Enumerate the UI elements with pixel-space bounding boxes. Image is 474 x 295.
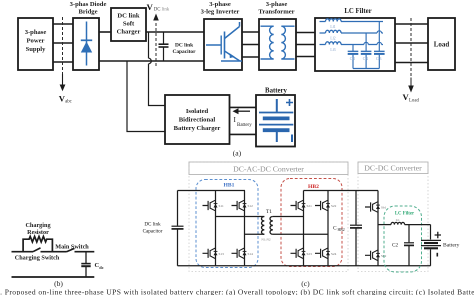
svg-text:Lb: Lb <box>396 218 400 222</box>
svg-text:3-phase: 3-phase <box>266 1 288 8</box>
VDClink measurement dashed line and arrow <box>147 2 170 66</box>
svg-text:S11: S11 <box>219 204 224 208</box>
svg-text:Soft: Soft <box>123 21 135 28</box>
transformer box <box>259 19 296 70</box>
svg-text:Battery: Battery <box>265 88 287 95</box>
C2 capacitor branch <box>392 225 414 266</box>
svg-text:Cf3: Cf3 <box>376 57 382 61</box>
svg-text:S14: S14 <box>248 252 254 256</box>
svg-text:DC link: DC link <box>117 13 140 20</box>
charging resistor label <box>25 222 51 236</box>
main line left segment <box>12 251 34 253</box>
svg-text:LC Filter: LC Filter <box>344 8 371 15</box>
3-phas diode bridge label <box>70 1 107 15</box>
isolated bidirectional battery charger box <box>165 95 230 144</box>
svg-text:Charging Switch: Charging Switch <box>15 255 60 262</box>
IGBT S12 <box>232 200 247 210</box>
IGBT S24 <box>315 248 330 258</box>
svg-text:V: V <box>147 2 154 12</box>
svg-text:3-phase: 3-phase <box>209 1 231 8</box>
svg-text:Lf1: Lf1 <box>330 25 335 29</box>
buck output wire with inductor Lb <box>378 218 431 225</box>
svg-text:T1: T1 <box>266 209 272 215</box>
IGBT S11 <box>203 200 218 210</box>
svg-text:Capacitor: Capacitor <box>172 49 196 55</box>
svg-text:S21: S21 <box>307 204 313 208</box>
wire A HB1 mid to transformer top <box>216 216 265 218</box>
svg-text:Load: Load <box>409 98 419 103</box>
svg-text:S22: S22 <box>331 204 337 208</box>
charging switch blade <box>33 248 41 252</box>
svg-text:HB2: HB2 <box>338 228 345 232</box>
svg-text:DC-DC Converter: DC-DC Converter <box>364 164 422 173</box>
3-phase transformer label <box>258 1 294 15</box>
svg-text:Battery: Battery <box>443 243 460 249</box>
svg-text:3-phase: 3-phase <box>25 29 47 36</box>
IBattery arrow and label <box>233 108 253 128</box>
wire B' transformer bottom to HB2 <box>273 233 328 235</box>
bottom DC bus <box>99 60 204 62</box>
svg-text:Isolated: Isolated <box>186 108 209 115</box>
IGBT S21 <box>291 200 306 210</box>
svg-text:Transformer: Transformer <box>258 8 294 15</box>
svg-text:N1:N2: N1:N2 <box>261 238 271 242</box>
svg-text:DC link: DC link <box>175 43 193 49</box>
svg-text:3-phas Diode: 3-phas Diode <box>70 1 107 8</box>
DC link capacitor branch (c) <box>143 191 184 266</box>
HB2 leg 2 <box>327 191 329 266</box>
battery symbol <box>259 99 293 142</box>
svg-text:(a): (a) <box>233 149 242 158</box>
svg-text:Bridge: Bridge <box>78 8 97 15</box>
wire top bus to battery charger (hops bottom bus) <box>149 32 166 106</box>
3-phase 3-leg inverter label <box>201 1 240 15</box>
wire phase b <box>53 42 73 44</box>
main line mid segment <box>41 251 67 253</box>
HB2 leg 1 <box>303 191 305 266</box>
IGBT S13 <box>203 248 218 258</box>
wire A' transformer top to HB2 <box>273 216 304 218</box>
inverter box <box>204 19 242 70</box>
LC filter capacitor branch 1 (from line 1) <box>374 22 385 69</box>
3-phase power supply box <box>18 18 53 70</box>
svg-text:Sb1: Sb1 <box>381 206 387 210</box>
LC filter inductor L2 line (hops branch 1) <box>320 30 384 40</box>
svg-text:Cf1: Cf1 <box>350 57 356 61</box>
svg-text:Lf3: Lf3 <box>330 48 335 52</box>
T1 primary winding <box>262 217 265 235</box>
Vload measurement dashed line and arrow <box>403 18 420 103</box>
bottom return line <box>12 276 95 278</box>
svg-text:S24: S24 <box>331 252 337 256</box>
HB1 dashed box <box>196 180 258 268</box>
wires transformer to LC filter <box>296 33 315 57</box>
IGBT S23 <box>291 248 306 258</box>
T1 secondary winding <box>270 217 273 235</box>
main switch blade <box>67 248 75 251</box>
wire B HB1 to transformer bottom <box>245 233 265 235</box>
svg-text:Charger: Charger <box>117 29 141 36</box>
svg-text:S12: S12 <box>248 204 254 208</box>
battery (c) <box>421 225 460 266</box>
Vabc measurement dashed line and arrow <box>59 17 72 105</box>
Cdc capacitor <box>81 252 103 277</box>
top DC bus (bridge to soft charger) <box>99 31 111 33</box>
inverter IGBT symbol <box>206 22 242 61</box>
svg-text:S23: S23 <box>307 252 313 256</box>
svg-text:3-leg Inverter: 3-leg Inverter <box>201 8 240 15</box>
diode symbol <box>81 22 92 66</box>
transformer primary winding <box>261 26 274 59</box>
svg-text:DC link: DC link <box>154 8 170 13</box>
wires charger to battery <box>230 107 257 134</box>
top DC bus (soft charger to inverter) <box>146 31 204 33</box>
svg-text:abc: abc <box>65 100 72 105</box>
IGBT S14 <box>232 248 247 258</box>
IGBT Sb1 <box>365 202 380 212</box>
wires LC filter to load <box>395 24 428 63</box>
DC-AC-DC converter region dashed box <box>189 162 348 272</box>
main line right segment <box>75 251 95 253</box>
wires inverter to transformer <box>242 32 259 57</box>
transformer secondary winding <box>281 26 294 59</box>
LC filter inductor L1 line <box>320 19 384 29</box>
wire bottom bus to battery charger <box>127 61 165 132</box>
svg-text:Lf2: Lf2 <box>330 36 335 40</box>
LC filter capacitor branch 3 (from line 3) <box>348 45 359 69</box>
svg-text:Supply: Supply <box>26 46 47 53</box>
CHB2 capacitor branch <box>333 191 362 266</box>
svg-text:Load: Load <box>434 41 450 49</box>
HB2 dashed box <box>281 179 342 267</box>
svg-text:4. Proposed on-line three-ph: 4. Proposed on-line three-phase UPS with… <box>0 288 474 295</box>
svg-text:dc: dc <box>99 265 103 270</box>
DC-DC converter region dashed box <box>358 162 428 272</box>
svg-text:Cf2: Cf2 <box>363 57 369 61</box>
diode bridge box <box>73 18 99 70</box>
top rail HB2 to buck leg <box>304 190 379 192</box>
LC filter inductor L3 line (hops branches 1 and 2) <box>320 42 384 52</box>
LC filter dashed green box <box>384 206 422 272</box>
load box <box>428 18 455 70</box>
svg-text:LC Filter: LC Filter <box>395 212 415 217</box>
IGBT S22 <box>315 200 330 210</box>
HB1 leg 1 <box>215 191 217 266</box>
buck converter leg <box>377 191 379 266</box>
DC link capacitor branch <box>159 32 197 61</box>
LC filter box <box>315 18 395 71</box>
svg-text:DC-AC-DC Converter: DC-AC-DC Converter <box>233 165 304 174</box>
svg-text:Battery: Battery <box>237 123 252 128</box>
svg-text:Capacitor: Capacitor <box>143 229 163 235</box>
wire phase a <box>53 23 73 25</box>
svg-text:C2: C2 <box>392 243 398 249</box>
svg-text:HB1: HB1 <box>224 183 235 189</box>
svg-text:S13: S13 <box>219 252 225 256</box>
svg-text:DC link: DC link <box>144 222 161 228</box>
charging resistor bypass branch with zigzag <box>23 236 52 251</box>
svg-text:C: C <box>333 226 337 232</box>
bottom rail <box>178 265 431 267</box>
IGBT Sb2 <box>365 250 380 260</box>
svg-text:Power: Power <box>27 38 45 45</box>
battery box <box>256 95 295 147</box>
svg-text:Charging: Charging <box>25 222 51 229</box>
svg-text:HB2: HB2 <box>308 184 319 190</box>
LC filter capacitor branch 2 (from line 2) <box>361 33 372 69</box>
HB1 leg 2 <box>244 191 246 266</box>
DC link soft charger box <box>111 8 146 41</box>
top rail HB1 <box>178 190 246 192</box>
LC filter neutral bus <box>353 68 379 70</box>
svg-text:Battery Charger: Battery Charger <box>174 125 221 132</box>
wire phase c <box>53 61 73 63</box>
svg-text:Bidirectional: Bidirectional <box>179 117 216 124</box>
